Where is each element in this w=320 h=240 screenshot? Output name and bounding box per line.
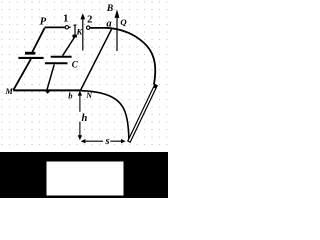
rod top end cap: [153, 84, 157, 89]
capacitor C top plate: [51, 56, 72, 58]
white box in banner: [47, 162, 124, 196]
contact 1 terminal circle: [65, 26, 68, 29]
battery positive plate (long): [18, 57, 43, 59]
svg-text:s: s: [105, 136, 110, 147]
projectile trajectory from N: [81, 91, 129, 142]
wire from contact 2 to point a: [90, 27, 107, 29]
svg-text:h: h: [81, 113, 87, 124]
svg-text:Q: Q: [120, 17, 126, 27]
battery negative plate (short thick): [25, 52, 35, 55]
wire stub right of contact 1: [69, 26, 71, 28]
svg-text:a: a: [106, 19, 111, 30]
switch K pivot: [72, 35, 76, 38]
arrowhead of B arrow: [115, 9, 120, 18]
h dimension bottom arrowhead: [78, 135, 82, 140]
junction arrowhead below bottom edge: [45, 91, 51, 94]
field arrow B shaft: [116, 18, 118, 51]
svg-text:M: M: [5, 87, 14, 96]
svg-text:b: b: [68, 90, 73, 100]
s dimension left arrowhead: [81, 139, 86, 143]
h dimension top arrowhead: [78, 91, 82, 96]
capacitor C bottom plate: [45, 62, 68, 64]
h dimension line: [79, 96, 81, 137]
svg-text:B: B: [106, 4, 113, 14]
battery bottom lead to M (left edge lower): [13, 59, 31, 90]
bottom edge wire M to N corner: [13, 89, 80, 91]
trajectory arc of charge Q: [106, 28, 155, 85]
arrowhead of switch-side arrow: [80, 13, 85, 19]
inclined rod: [128, 84, 157, 142]
svg-text:1: 1: [63, 14, 68, 25]
right edge of loop (a to N corner): [80, 28, 112, 90]
contact 2 terminal circle: [87, 26, 90, 29]
svg-text:P: P: [40, 16, 47, 27]
capacitor top lead from pivot: [63, 37, 75, 56]
black banner: [0, 152, 168, 198]
battery top lead (left edge upper): [32, 28, 44, 52]
svg-text:2: 2: [87, 14, 92, 25]
wire P to contact 1 (top edge of oblique circuit loop): [45, 26, 65, 28]
capacitor bottom lead: [47, 65, 54, 91]
svg-text:C: C: [72, 59, 79, 69]
s dimension right arrowhead: [121, 139, 126, 143]
arrow up beside switch: [82, 19, 84, 50]
s dimension line: [85, 140, 122, 142]
switch K blade: [74, 25, 77, 36]
